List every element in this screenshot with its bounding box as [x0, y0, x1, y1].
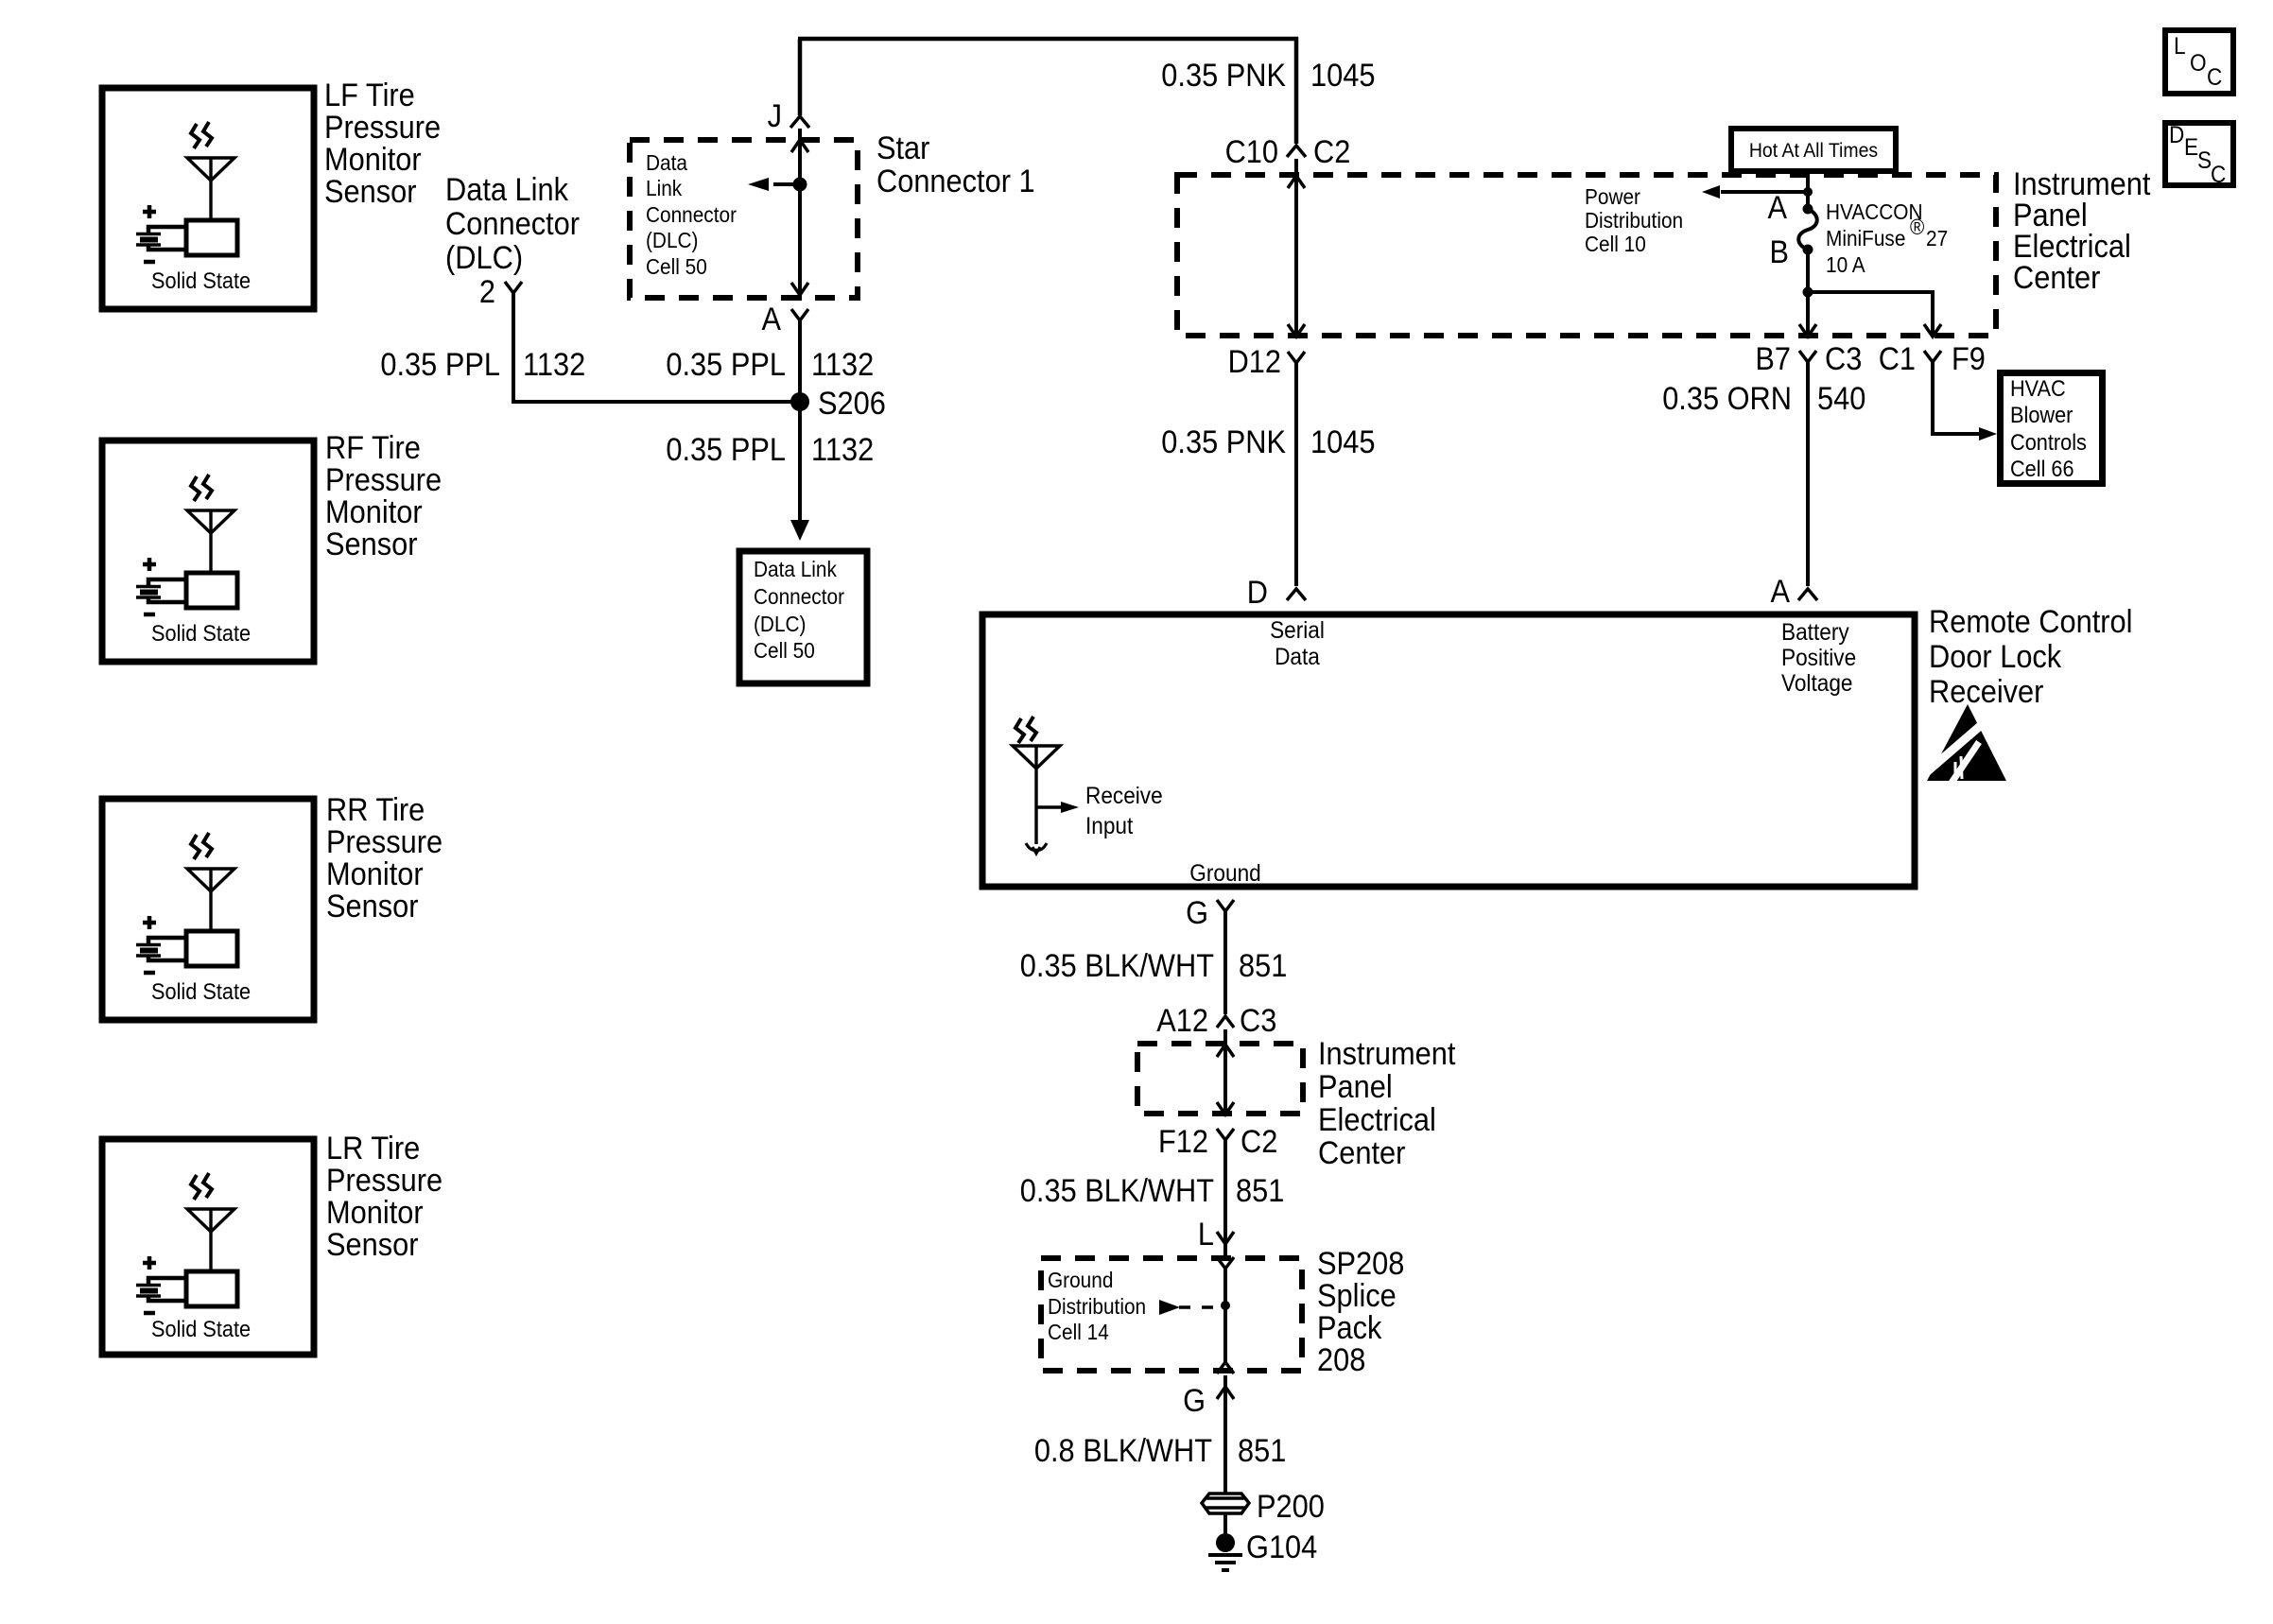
svg-text:RF Tire: RF Tire	[325, 430, 421, 466]
svg-text:Splice: Splice	[1317, 1278, 1397, 1314]
svg-text:Cell 10: Cell 10	[1585, 232, 1646, 256]
svg-text:Solid State: Solid State	[151, 268, 251, 294]
wire: C1/F9 to HVAC Blower Controls	[1933, 362, 1982, 434]
svg-text:SP208: SP208	[1317, 1246, 1404, 1282]
svg-text:Pressure: Pressure	[326, 1163, 442, 1199]
fork below SP208 top edge	[1217, 1257, 1234, 1269]
svg-text:A: A	[1771, 574, 1791, 610]
svg-text:Cell 50: Cell 50	[646, 254, 707, 279]
svg-text:1132: 1132	[811, 432, 874, 468]
svg-text:S: S	[2197, 147, 2212, 174]
component box: Remote Control Door Lock Receiver	[982, 614, 1915, 887]
svg-text:(DLC): (DLC)	[646, 228, 699, 252]
svg-text:B: B	[1770, 234, 1790, 270]
svg-text:Sensor: Sensor	[326, 889, 419, 924]
svg-text:Connector: Connector	[445, 206, 580, 242]
svg-text:G104: G104	[1246, 1529, 1317, 1565]
svg-text:Pressure: Pressure	[324, 110, 441, 146]
junction dot in star box	[793, 178, 807, 192]
fuse HVACCON MiniFuse 27 10A	[1803, 204, 1813, 215]
reference arrow pointing left to Power Distribution	[1721, 190, 1808, 194]
svg-text:C10: C10	[1225, 134, 1278, 170]
svg-text:851: 851	[1236, 1173, 1284, 1209]
svg-text:C3: C3	[1240, 1003, 1276, 1039]
svg-text:27: 27	[1926, 226, 1948, 251]
svg-text:Solid State: Solid State	[151, 979, 251, 1005]
svg-text:0.35 ORN: 0.35 ORN	[1662, 381, 1792, 417]
arrowhead up below top edge	[1217, 1045, 1234, 1057]
svg-text:Data Link: Data Link	[754, 557, 837, 581]
junction dot in SP208	[1221, 1301, 1230, 1310]
svg-text:C: C	[2207, 64, 2222, 91]
fork at SP208 bottom edge	[1217, 1362, 1234, 1373]
component box: RR Tire Pressure Monitor Sensor	[102, 799, 314, 1020]
wire branch to C1/F9	[1808, 292, 1933, 337]
svg-text:Power: Power	[1585, 184, 1640, 209]
svg-text:Voltage: Voltage	[1781, 670, 1853, 697]
svg-text:Sensor: Sensor	[325, 527, 418, 562]
junction dot branch to C1	[1803, 287, 1813, 298]
arrowhead up inside star box	[791, 140, 808, 152]
svg-text:Input: Input	[1085, 813, 1133, 839]
arrowhead up below IPEC top edge	[1288, 176, 1305, 188]
svg-text:Monitor: Monitor	[325, 494, 423, 530]
svg-text:Connector 1: Connector 1	[876, 164, 1035, 199]
reference box DESC	[2165, 122, 2233, 188]
svg-text:J: J	[768, 98, 782, 134]
svg-text:1132: 1132	[523, 347, 585, 383]
svg-text:0.35 PPL: 0.35 PPL	[666, 432, 786, 468]
svg-text:Data: Data	[646, 150, 687, 175]
wire: D12 down to receiver pin D	[1294, 363, 1298, 586]
wire through lower IPEC	[1223, 1029, 1227, 1114]
svg-text:D: D	[1247, 575, 1268, 611]
svg-text:Receiver: Receiver	[1929, 674, 2043, 710]
svg-text:Solid State: Solid State	[151, 1317, 251, 1342]
dashed box: Instrument Panel Electrical Center (lower)	[1137, 1044, 1303, 1114]
wire: G down to A12	[1223, 911, 1227, 1014]
component box: HVAC Blower Controls Cell 66	[2001, 373, 2103, 484]
svg-text:Data Link: Data Link	[445, 172, 569, 208]
svg-text:Center: Center	[2013, 260, 2100, 296]
component box: Data Link Connector (DLC) Cell 50	[739, 551, 867, 683]
svg-text:Solid State: Solid State	[151, 621, 251, 647]
svg-text:HVACCON: HVACCON	[1826, 199, 1923, 224]
wire: F12 down to SP208	[1223, 1140, 1227, 1257]
wire: P200 to ground	[1223, 1513, 1227, 1536]
interior antenna: Receive Input	[1013, 717, 1064, 854]
wire: B7 down to receiver pin A	[1806, 362, 1810, 586]
svg-text:Hot At All Times: Hot At All Times	[1749, 139, 1878, 162]
wire through SP208	[1223, 1269, 1227, 1362]
svg-text:C1: C1	[1879, 341, 1916, 377]
arrowhead down above IPEC bottom (C1)	[1924, 324, 1941, 337]
svg-text:Distribution: Distribution	[1585, 208, 1683, 233]
svg-text:Monitor: Monitor	[324, 142, 422, 178]
wire: fuse B down to B7	[1806, 250, 1810, 337]
svg-text:P200: P200	[1257, 1489, 1325, 1525]
svg-text:D: D	[2169, 122, 2184, 148]
svg-text:O: O	[2190, 50, 2207, 77]
svg-text:Pressure: Pressure	[325, 462, 442, 498]
arrowhead down above IPEC bottom (B7)	[1799, 324, 1816, 337]
svg-text:Data: Data	[1275, 644, 1320, 670]
svg-text:Controls: Controls	[2010, 430, 2087, 456]
arrowhead down above bottom edge	[1217, 1102, 1234, 1114]
svg-text:1045: 1045	[1310, 424, 1376, 460]
svg-text:Battery: Battery	[1781, 619, 1849, 646]
connector fork at DLC pin 2	[505, 282, 522, 293]
svg-text:208: 208	[1317, 1342, 1365, 1378]
wire: SP208 down to P200	[1223, 1375, 1227, 1494]
svg-text:LR Tire: LR Tire	[326, 1131, 420, 1166]
ESD symbol	[1923, 704, 2006, 786]
connector A fork	[791, 309, 808, 320]
svg-text:Star: Star	[876, 130, 929, 166]
svg-text:G: G	[1186, 895, 1208, 931]
component box: RF Tire Pressure Monitor Sensor	[102, 441, 314, 662]
component box: Hot At All Times	[1731, 129, 1896, 171]
svg-text:E: E	[2184, 134, 2198, 161]
svg-text:0.35 PPL: 0.35 PPL	[666, 347, 786, 383]
wire through IPEC box	[1294, 159, 1298, 337]
wire: star box to DLC cell box	[798, 320, 802, 524]
component box: LF Tire Pressure Monitor Sensor	[102, 88, 314, 309]
svg-text:(DLC): (DLC)	[754, 612, 807, 636]
svg-text:0.35 PPL: 0.35 PPL	[380, 347, 500, 383]
svg-text:F9: F9	[1952, 341, 1986, 377]
svg-text:851: 851	[1238, 1433, 1286, 1469]
svg-text:Door Lock: Door Lock	[1929, 639, 2062, 675]
svg-text:RR Tire: RR Tire	[326, 792, 425, 828]
svg-text:Connector: Connector	[646, 202, 737, 227]
wire: DLC pin 2 down to splice	[513, 293, 800, 402]
reference arrow pointing left in star box	[773, 182, 800, 186]
svg-text:L: L	[1198, 1217, 1214, 1253]
reference box LOC	[2165, 30, 2233, 94]
svg-text:0.35 BLK/WHT: 0.35 BLK/WHT	[1020, 948, 1214, 984]
svg-text:Serial: Serial	[1270, 617, 1325, 644]
svg-text:Center: Center	[1318, 1135, 1405, 1171]
svg-text:Pressure: Pressure	[326, 824, 442, 860]
svg-text:Cell 50: Cell 50	[754, 638, 815, 663]
svg-text:Remote Control: Remote Control	[1929, 604, 2133, 640]
component box: LR Tire Pressure Monitor Sensor	[102, 1139, 314, 1355]
svg-text:(DLC): (DLC)	[445, 240, 523, 276]
grommet P200	[1202, 1494, 1249, 1513]
svg-text:0.35 PNK: 0.35 PNK	[1161, 58, 1286, 94]
svg-text:Sensor: Sensor	[324, 174, 417, 210]
svg-text:C3: C3	[1825, 341, 1862, 377]
svg-text:C: C	[2211, 162, 2226, 188]
svg-text:A: A	[1768, 190, 1788, 226]
svg-text:Electrical: Electrical	[1318, 1102, 1436, 1138]
svg-text:L: L	[2174, 33, 2186, 60]
svg-text:®: ®	[1910, 215, 1924, 239]
svg-text:Positive: Positive	[1781, 645, 1856, 671]
arrowhead down above IPEC bottom edge	[1288, 324, 1305, 337]
svg-text:Instrument: Instrument	[1318, 1036, 1456, 1072]
svg-text:Ground: Ground	[1189, 860, 1261, 887]
svg-text:0.35 PNK: 0.35 PNK	[1161, 424, 1286, 460]
svg-text:LF Tire: LF Tire	[324, 78, 415, 113]
svg-text:Cell 66: Cell 66	[2010, 457, 2074, 482]
wire: Hot At All Times down to fuse	[1806, 171, 1810, 209]
svg-text:Monitor: Monitor	[326, 856, 424, 892]
svg-text:S206: S206	[818, 386, 886, 422]
svg-text:Blower: Blower	[2010, 403, 2073, 428]
svg-text:D12: D12	[1228, 344, 1281, 380]
svg-text:540: 540	[1817, 381, 1865, 417]
svg-text:0.8 BLK/WHT: 0.8 BLK/WHT	[1034, 1433, 1212, 1469]
svg-text:2: 2	[479, 274, 495, 310]
connector J chevron	[790, 116, 809, 128]
wire: from top bus down to connector C10/C2	[1294, 37, 1299, 144]
svg-text:C2: C2	[1241, 1124, 1277, 1160]
svg-text:Link: Link	[646, 176, 683, 200]
svg-text:Pack: Pack	[1317, 1310, 1382, 1346]
dashed box: SP208 Splice Pack 208	[1041, 1258, 1302, 1371]
svg-text:MiniFuse: MiniFuse	[1826, 226, 1905, 251]
svg-text:1045: 1045	[1310, 58, 1376, 94]
svg-text:Monitor: Monitor	[326, 1195, 424, 1231]
svg-text:F12: F12	[1158, 1124, 1208, 1160]
svg-text:Receive: Receive	[1085, 783, 1163, 809]
svg-text:G: G	[1183, 1383, 1206, 1419]
arrowhead down inside star box	[791, 283, 808, 295]
svg-text:851: 851	[1239, 948, 1287, 984]
svg-text:B7: B7	[1755, 341, 1791, 377]
svg-text:10 A: 10 A	[1826, 252, 1865, 277]
svg-text:Ground: Ground	[1048, 1268, 1113, 1292]
svg-text:HVAC: HVAC	[2010, 376, 2066, 402]
dashed box: Instrument Panel Electrical Center	[1177, 175, 1996, 336]
arrowhead into DLC cell box	[790, 520, 809, 541]
wire through star connector box	[798, 129, 802, 301]
wire: top horizontal bus	[798, 37, 1298, 42]
svg-text:Distribution: Distribution	[1048, 1294, 1146, 1319]
dashed reference arrow to splice	[1179, 1305, 1220, 1309]
svg-text:1132: 1132	[811, 347, 874, 383]
svg-text:C2: C2	[1313, 134, 1350, 170]
ground G104	[1216, 1533, 1235, 1552]
svg-text:Connector: Connector	[754, 584, 844, 609]
svg-text:0.35 BLK/WHT: 0.35 BLK/WHT	[1020, 1173, 1214, 1209]
svg-text:Cell 14: Cell 14	[1048, 1320, 1109, 1344]
junction dot (power distribution tap)	[1803, 187, 1813, 197]
svg-text:A: A	[762, 302, 782, 337]
dashed box: Star Connector 1	[630, 140, 858, 298]
wire: from top bus down to connector J	[798, 39, 803, 115]
svg-text:Panel: Panel	[1318, 1069, 1393, 1105]
svg-text:A12: A12	[1156, 1003, 1208, 1039]
splice S206	[790, 392, 809, 411]
svg-text:Sensor: Sensor	[326, 1227, 419, 1263]
